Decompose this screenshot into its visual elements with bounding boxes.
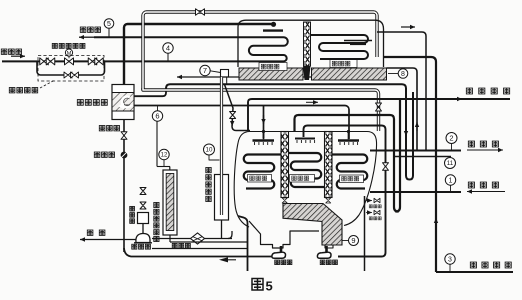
arrow right on y32 branch: [401, 26, 415, 28]
pipe vessel drain: [221, 220, 223, 239]
pipe B x231 with valve to shell: [225, 85, 251, 131]
svg-text:5: 5: [266, 279, 273, 294]
pump refrigerant (冷剂泵): [325, 246, 328, 253]
label solution-pump (溶液泵): [275, 260, 280, 265]
label chilled-water-out (冷水出): [468, 141, 474, 147]
label motorized-valve (电动调节阀): [52, 43, 57, 48]
label cooling-water-out (冷却水出): [466, 88, 472, 94]
arrow on cwout line: [448, 98, 462, 100]
fitting tube-plate right bottom: [326, 198, 331, 203]
pipe HX hot-side inlet y96: [134, 88, 166, 97]
wire hot-water-out line y37 to generator coil / generator coil serpentine: [2, 37, 288, 61]
label decrystallization (自动溶晶管) vertical: [206, 168, 211, 173]
coil absorber-right serpentine: [332, 155, 367, 189]
tray condensate in condenser: [344, 40, 372, 42]
tube-plate column right: [325, 132, 333, 198]
pipe riser x247.5 into shell: [238, 216, 248, 271]
valve on x385.5: [383, 163, 389, 171]
node 4 circled: [163, 43, 173, 53]
label condenser (冷凝器) box: [330, 60, 357, 68]
exchanger coil arrow white: [122, 97, 130, 107]
spray header evaporator: [295, 138, 315, 140]
svg-text:8: 8: [401, 71, 405, 78]
svg-text:12: 12: [161, 153, 168, 159]
valve sampling upper with arrow: [366, 200, 372, 202]
wedge divider dark: [303, 66, 311, 80]
label sampling lower tiny: [369, 217, 372, 220]
arrow hot-water-in flow right: [11, 55, 25, 57]
nozzle generator spray with bar: [248, 23, 272, 26]
arrow small under cwout: [306, 101, 318, 103]
node 2 circled: [446, 133, 457, 144]
node 8 circled: [398, 69, 408, 79]
pipe chilled-water-in y192: [370, 191, 461, 193]
pipe purge suction x157: [156, 121, 158, 166]
pipe trap to vacuum pump: [142, 224, 144, 234]
pipe solution downcomer x124: [123, 120, 125, 253]
pipe cooler up to shell: [228, 231, 232, 239]
wire strong-solution riser x124 HX-to-generator: [124, 24, 248, 85]
valve check (止回阀) filled: [121, 152, 128, 159]
node 7 circled: [200, 65, 210, 75]
label cooling-water-in (冷却水进): [470, 262, 476, 268]
pipe PI2 header y125.5 to refrigerant pump: [304, 126, 386, 257]
label hot-water-out (热水出): [80, 27, 86, 32]
svg-text:9: 9: [351, 236, 355, 245]
pipe y156.5 stub: [393, 156, 451, 158]
label evaporator (蒸发器) box: [290, 175, 315, 183]
svg-text:6: 6: [155, 112, 159, 121]
node 3 circled: [445, 254, 455, 264]
shell lower vessel outline: [234, 132, 376, 228]
svg-text:7: 7: [203, 66, 207, 75]
label check-valve (止回阀): [94, 152, 100, 157]
svg-text:5: 5: [107, 21, 111, 28]
exchanger shell (热交换器) box: [112, 85, 134, 120]
pipe return y242 to x247.5: [170, 241, 248, 243]
arrow up on x417: [416, 122, 418, 131]
label purge-unit (自动抽气装置) vertical: [154, 202, 159, 207]
pipe branch y57 right thick: [384, 57, 437, 272]
valve regulating (调节阀): [121, 132, 127, 140]
funnel solution (left) outline: [249, 221, 319, 248]
arrow exhaust left: [79, 239, 81, 241]
valve motorized control (电动调节阀): [65, 58, 74, 65]
arrow left on y77 line: [176, 76, 178, 78]
band condenser liquid hatched: [312, 68, 387, 80]
svg-text:4: 4: [166, 44, 170, 53]
vessel decrystallization (自动溶晶管): [215, 175, 229, 221]
valve inlet pair left: [40, 58, 49, 65]
spray header absorber-left: [253, 139, 275, 141]
eliminator divider column: [304, 22, 311, 66]
label hot-water-in (热水进): [1, 49, 7, 54]
coil condenser serpentine: [311, 35, 368, 59]
label customer-supplied (客户自备): [9, 88, 15, 93]
node 9 circled: [349, 236, 359, 246]
label vacuum-pump (真空泵): [132, 244, 137, 249]
valve bypass pair: [64, 72, 72, 78]
svg-text:M: M: [67, 51, 72, 57]
wire bypass loop under main line: [37, 61, 105, 75]
pipe chilled-water-out y150.5: [370, 150, 461, 152]
fitting tube-plate left bottom: [282, 198, 287, 203]
pipe cooling-water-in y272: [436, 271, 513, 273]
valve on top pipe: [196, 9, 205, 16]
arrow down on x406: [405, 127, 407, 136]
tube-plate column left: [281, 132, 289, 198]
caption 图5: [252, 279, 263, 291]
wire hot thick line y84 from HX corner to right then U2 loop: [166, 84, 413, 179]
pump solution (溶液泵): [280, 246, 283, 253]
arrow hot-water-out flow left: [79, 36, 94, 38]
label exhaust (排气): [87, 230, 93, 235]
coil absorber-left serpentine: [244, 155, 281, 189]
pipe purge drain: [169, 235, 171, 242]
node 12 circled: [159, 149, 169, 159]
node 5 circled: [104, 19, 114, 29]
valve outlet pair right: [88, 58, 97, 65]
pump vacuum (真空泵): [136, 233, 150, 242]
pipe refrigerant top double-line y12: [143, 12, 377, 90]
svg-text:11: 11: [447, 160, 454, 167]
pipe purge top connector: [169, 167, 171, 171]
wire drop x263.5 to left spray header: [263, 106, 265, 139]
valve purge line v2: [140, 202, 146, 209]
arrow chilled-water-out: [467, 149, 503, 151]
pipe sampling drop x363: [364, 196, 366, 271]
pipe inner decrystallization dbl: [220, 77, 223, 215]
coil evaporator serpentine: [289, 153, 325, 187]
arrow chilled-water-in: [467, 191, 505, 193]
band generator liquid hatched: [239, 68, 303, 80]
pipe y68-x417 riser: [387, 68, 418, 151]
funnel refrigerant hatched chute: [283, 204, 342, 246]
box oil-trap (阻油器): [138, 213, 149, 224]
svg-text:1: 1: [449, 178, 453, 185]
arrow down on x263.5: [263, 115, 265, 124]
pipe branch y32 right: [377, 32, 426, 151]
label cooler (冷却器): [172, 243, 177, 248]
label generator (发生器) box: [259, 63, 287, 71]
svg-text:2: 2: [449, 134, 453, 143]
spray header absorber-right: [338, 139, 359, 141]
label sampling upper tiny: [369, 205, 372, 208]
pipe HX hot-side outlet y105.5 header: [134, 106, 349, 140]
label regulating-valve (调节阀): [99, 126, 105, 131]
node 10 circled: [204, 144, 215, 155]
pipe solution bottom run y256.5 to solution pump: [123, 247, 130, 257]
valve on pipe B: [230, 112, 236, 119]
label chilled-water-in (冷水进): [468, 182, 474, 188]
node 1 circled: [445, 175, 455, 185]
meter 7 sight-box on y84 line: [221, 70, 229, 78]
label refrigerant-pump (冷剂泵): [320, 260, 325, 265]
pipe cooling-water-out y99: [248, 99, 510, 131]
valve sampling lower with arrow: [366, 212, 372, 214]
shell upper vessel outline: [238, 20, 384, 67]
svg-text:3: 3: [448, 257, 452, 264]
valve on x378.5 drop: [376, 103, 382, 111]
tray generator splash bar: [263, 29, 283, 31]
node 11 circled: [445, 158, 456, 169]
pipe return y247 to x247.5: [152, 248, 248, 250]
arrow left on bottom pipe: [219, 257, 228, 262]
pipe vapor double-line y90 to lower shell: [143, 88, 379, 131]
boundary customer-supplied dashed box: [38, 56, 104, 82]
label heat-exchanger (热交换器): [77, 100, 83, 106]
svg-text:10: 10: [206, 147, 213, 154]
valve purge line v1: [140, 188, 146, 195]
label oil-trap (阻油器) vertical: [130, 206, 135, 211]
cylinder purge unit (自动抽气装置): [163, 170, 177, 235]
arrow down on pipe B: [231, 119, 233, 126]
node 6 circled: [152, 111, 162, 121]
label absorber-left (吸收器) box: [248, 175, 272, 183]
arrow up on x436: [435, 218, 437, 228]
cooler diamond (冷却器): [152, 238, 232, 240]
pipe PI1 header y115: [295, 100, 401, 212]
label absorber-right (吸收器) box: [340, 175, 364, 183]
